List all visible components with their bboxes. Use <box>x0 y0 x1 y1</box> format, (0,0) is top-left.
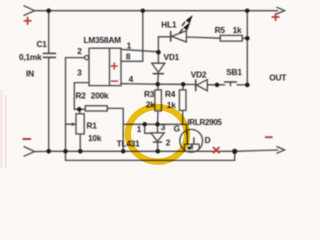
svg-text:LM358AM: LM358AM <box>84 35 122 45</box>
svg-text:3: 3 <box>77 67 82 77</box>
svg-text:VD1: VD1 <box>164 52 180 62</box>
svg-text:IRLR2905: IRLR2905 <box>188 118 223 127</box>
svg-text:1: 1 <box>137 124 142 134</box>
svg-text:10k: 10k <box>88 133 102 143</box>
svg-text:0,1mk: 0,1mk <box>19 52 42 62</box>
svg-text:HL1: HL1 <box>161 20 177 30</box>
svg-text:D: D <box>205 135 211 145</box>
svg-text:C1: C1 <box>37 39 48 49</box>
svg-text:8: 8 <box>126 52 131 62</box>
svg-text:R5: R5 <box>215 25 226 35</box>
svg-text:VD2: VD2 <box>191 70 207 80</box>
svg-text:SB1: SB1 <box>226 67 242 77</box>
svg-text:1: 1 <box>127 41 132 51</box>
svg-text:1k: 1k <box>233 25 242 35</box>
svg-text:R2: R2 <box>76 91 87 101</box>
svg-text:200k: 200k <box>91 91 109 101</box>
svg-text:2: 2 <box>166 138 171 148</box>
svg-text:R1: R1 <box>87 121 98 131</box>
svg-text:R4: R4 <box>165 89 176 99</box>
svg-text:IN: IN <box>26 69 34 79</box>
svg-text:OUT: OUT <box>269 72 286 82</box>
svg-text:R3: R3 <box>144 89 155 99</box>
svg-text:3: 3 <box>161 122 166 132</box>
svg-text:G: G <box>174 124 180 134</box>
svg-text:2: 2 <box>77 46 82 56</box>
svg-text:4: 4 <box>129 74 134 84</box>
